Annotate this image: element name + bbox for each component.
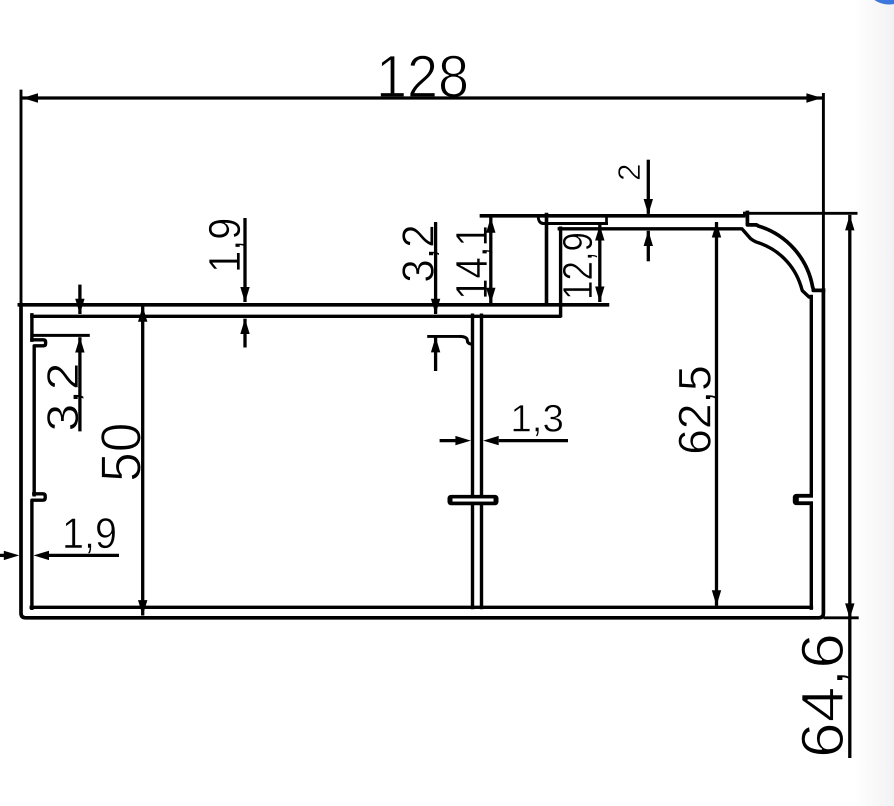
svg-text:1,9: 1,9 [62,510,117,558]
svg-text:128: 128 [376,43,469,110]
svg-text:62,5: 62,5 [669,365,721,455]
svg-text:1,3: 1,3 [510,397,564,440]
svg-text:12,9: 12,9 [554,232,601,300]
svg-text:1,9: 1,9 [199,218,250,273]
svg-text:64,6: 64,6 [789,633,856,758]
svg-text:2: 2 [611,163,647,181]
